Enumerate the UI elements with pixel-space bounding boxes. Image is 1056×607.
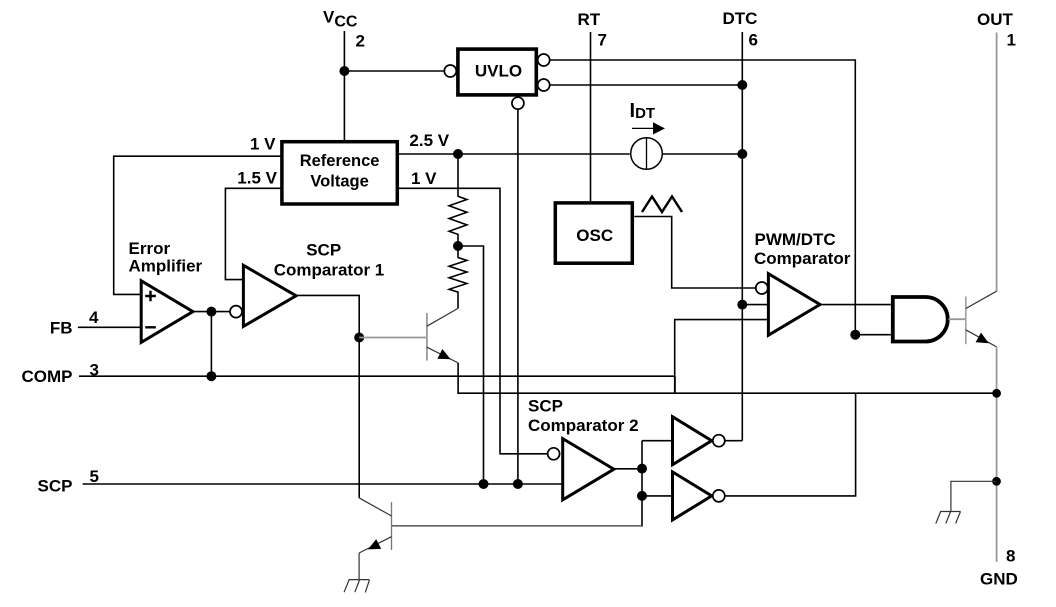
- node SCP UVLO junction: [513, 479, 523, 489]
- block OSC: [555, 203, 632, 263]
- wire 1V reference to error amplifier: [114, 156, 281, 294]
- svg-text:UVLO: UVLO: [475, 62, 522, 81]
- pin bubble buffer 2 output: [713, 490, 725, 502]
- pin bubble buffer 1 output: [713, 435, 725, 447]
- svg-text:FB: FB: [50, 319, 73, 338]
- wire DTC junction to PWM comparator: [742, 304, 768, 306]
- wire comparator 2 output to Q2 base: [392, 525, 643, 527]
- node DTC-current-source junction: [737, 149, 747, 159]
- op-amp SCP comparator 1: [243, 265, 296, 326]
- svg-text:1.5 V: 1.5 V: [237, 169, 277, 188]
- node error amp output junction: [206, 307, 216, 317]
- wire SCP comparator 2 output: [614, 468, 642, 470]
- sawtooth waveform symbol: [642, 197, 682, 213]
- transistor Q2: [359, 498, 392, 553]
- wire Q1 emitter to output rail: [458, 363, 997, 393]
- label IDT: [630, 100, 656, 122]
- wire divider tap to SCP line: [458, 246, 484, 484]
- svg-text:1 V: 1 V: [250, 135, 276, 154]
- node ground branch junction: [992, 477, 1001, 486]
- wire error amplifier output: [193, 311, 230, 313]
- resistor R2: [449, 246, 467, 308]
- node AND input junction: [850, 330, 860, 340]
- wire DTC pin 6 vertical rail: [741, 32, 743, 441]
- pin bubble UVLO output bottom: [512, 97, 524, 109]
- buffer 1: [673, 417, 712, 465]
- label 1.5 V output: [237, 169, 277, 188]
- pin OUT label: [977, 10, 1016, 50]
- pin bubble PWM comparator input: [756, 282, 768, 294]
- transistor Q3 output: [966, 291, 997, 347]
- wire Q3 emitter to GND rail: [996, 347, 998, 562]
- resistor R1: [449, 154, 467, 246]
- svg-text:SCP: SCP: [38, 477, 73, 496]
- pin bubble UVLO input left: [444, 65, 456, 77]
- pin VCC label: [323, 8, 365, 51]
- wire Q2 emitter to ground: [358, 553, 360, 580]
- wire COMP drop to rail: [674, 376, 676, 393]
- svg-text:GND: GND: [980, 570, 1018, 589]
- wire ground branch: [951, 481, 997, 511]
- svg-text:COMP: COMP: [22, 367, 73, 386]
- wire OSC output to PWM comparator: [634, 217, 755, 289]
- svg-text:1 V: 1 V: [411, 169, 437, 188]
- op-amp PWM/DTC comparator: [768, 274, 820, 336]
- svg-text:PWM/DTC: PWM/DTC: [755, 230, 836, 249]
- transistor Q1: [359, 308, 458, 363]
- wire AND output to output transistor base: [949, 318, 966, 320]
- ground symbol left: [344, 580, 369, 593]
- node emitter rail junction: [992, 389, 1001, 398]
- ground symbol right: [936, 512, 961, 524]
- svg-text:Comparator 1: Comparator 1: [274, 260, 385, 279]
- wire to buffer 1 input: [642, 440, 673, 442]
- buffer 2: [673, 472, 712, 520]
- svg-text:2: 2: [356, 32, 365, 51]
- node buffer rail junction lower: [637, 491, 647, 501]
- wire comparator 2 output rail: [641, 441, 643, 527]
- svg-text:OUT: OUT: [977, 10, 1014, 29]
- pin bubble SCP comparator 2 input: [548, 448, 560, 460]
- wire UVLO bottom output to SCP line: [517, 109, 519, 484]
- node VCC junction: [339, 66, 349, 76]
- svg-text:Comparator 2: Comparator 2: [528, 416, 639, 435]
- pin bubble SCP comparator 1 input: [230, 306, 242, 318]
- block UVLO: [458, 49, 536, 95]
- wire buffer 1 output to DTC rail: [725, 440, 743, 442]
- wire 1.5V reference to SCP comparator 1: [225, 188, 281, 279]
- svg-text:Voltage: Voltage: [310, 172, 368, 190]
- svg-text:8: 8: [1006, 547, 1015, 566]
- svg-text:Reference: Reference: [300, 152, 380, 170]
- pin COMP label: [22, 361, 99, 387]
- svg-text:Error: Error: [129, 239, 171, 258]
- label SCP Comparator 1: [274, 240, 385, 279]
- node DTC-UVLO junction: [737, 80, 747, 90]
- svg-text:6: 6: [749, 31, 758, 50]
- pin bubble UVLO output right upper: [538, 54, 550, 66]
- op-amp error amplifier U1: [141, 281, 193, 343]
- svg-text:1: 1: [1007, 31, 1016, 50]
- pin RT label: [578, 10, 607, 50]
- wire buffer 2 output to rail: [725, 393, 856, 496]
- wire 2.5V rail to current source: [399, 153, 630, 155]
- wire AND gate lower input: [855, 334, 891, 336]
- wire error output to COMP: [210, 312, 212, 377]
- svg-text:RT: RT: [578, 10, 601, 29]
- wire OUT vertical: [996, 33, 998, 292]
- node DTC-comparator junction: [737, 300, 747, 310]
- node resistor divider junction: [453, 241, 463, 251]
- node buffer rail junction upper: [637, 464, 647, 474]
- label 1 V left output: [250, 135, 276, 154]
- wire feedback to PWM comparator third input: [675, 320, 769, 394]
- wire UVLO upper output to AND gate: [550, 60, 856, 335]
- op-amp SCP comparator 2: [563, 439, 614, 500]
- pin bubble UVLO output right lower: [538, 79, 550, 91]
- wire PWM comparator output to AND gate: [820, 304, 891, 306]
- svg-text:4: 4: [89, 308, 99, 327]
- svg-text:DTC: DTC: [723, 9, 758, 28]
- svg-text:SCP: SCP: [306, 240, 341, 259]
- wire to buffer 2 input: [642, 495, 673, 497]
- wire VCC pin 2 vertical: [343, 31, 345, 140]
- label SCP Comparator 2: [528, 397, 639, 436]
- svg-text:Amplifier: Amplifier: [129, 257, 203, 276]
- wire UVLO lower output to DTC: [550, 84, 743, 86]
- arrow IDT direction: [632, 122, 665, 134]
- node COMP junction: [206, 371, 216, 381]
- wire COMP rail: [79, 375, 675, 377]
- label 1 V right output: [411, 169, 437, 188]
- node 2.5V junction: [453, 149, 463, 159]
- svg-text:2.5 V: 2.5 V: [409, 131, 449, 150]
- wire VCC to UVLO: [344, 70, 444, 72]
- node comparator 1 output junction: [354, 333, 364, 343]
- wire SCP rail: [83, 483, 563, 485]
- pin SCP label: [38, 467, 99, 496]
- wire RT pin 7 to OSC: [590, 32, 592, 201]
- svg-text:Comparator: Comparator: [754, 249, 851, 268]
- svg-text:5: 5: [90, 467, 99, 486]
- svg-text:SCP: SCP: [528, 397, 563, 416]
- svg-text:OSC: OSC: [576, 226, 613, 245]
- node SCP divider junction: [479, 479, 489, 489]
- svg-text:7: 7: [598, 31, 607, 50]
- AND gate: [893, 297, 948, 342]
- pin FB label: [50, 308, 99, 338]
- wire 1V reference to SCP comparator 2: [399, 188, 548, 454]
- pin DTC label: [723, 9, 758, 50]
- pin GND label: [980, 547, 1018, 589]
- current source IDT: [631, 138, 663, 170]
- label 2.5 V output: [409, 131, 449, 150]
- wire current source to DTC: [662, 153, 742, 155]
- wire FB to error amplifier: [78, 326, 141, 328]
- block Reference Voltage: [282, 142, 397, 204]
- label PWM/DTC Comparator: [754, 230, 851, 268]
- label Error Amplifier: [129, 239, 203, 276]
- wire SCP comparator 1 output: [296, 295, 359, 497]
